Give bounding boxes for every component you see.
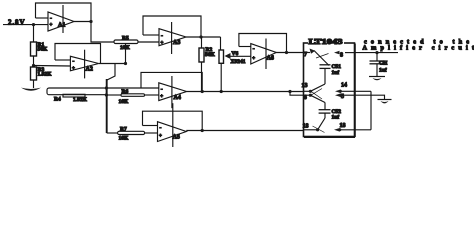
svg-text:1uf: 1uf xyxy=(332,115,340,121)
wire A5 output to pin 18 xyxy=(186,130,303,132)
op-amp A2 xyxy=(70,50,98,79)
svg-text:A3: A3 xyxy=(173,40,180,46)
node bus split pin13/6 xyxy=(288,90,291,93)
wire V6 to A6 + input xyxy=(231,55,251,57)
svg-text:56K: 56K xyxy=(38,47,49,53)
diode V6 X9241 xyxy=(219,50,246,65)
wire A3 feedback loop xyxy=(143,16,201,37)
node A3 output xyxy=(199,35,202,38)
pin 8 xyxy=(334,51,355,59)
node CH tap xyxy=(375,51,378,54)
node 2.8V input xyxy=(3,19,48,43)
wire R2 bottom to A4 output bus xyxy=(201,62,203,92)
wire R3 to ground xyxy=(33,80,35,88)
wire A2 output down to bus xyxy=(107,64,115,81)
wire A3 output xyxy=(186,36,221,38)
wire A4 output bus to pin 13 xyxy=(187,91,304,93)
ground under pin 5 wire xyxy=(378,100,392,104)
svg-text:+: + xyxy=(50,23,53,28)
wire A6 output to pin 7 xyxy=(276,52,303,54)
wire A1 output xyxy=(74,21,91,23)
wire A2 output up to R5 input line xyxy=(125,44,127,64)
node bus/R4 bottom xyxy=(105,93,108,96)
svg-text:CH: CH xyxy=(379,61,388,67)
node junction 2.8V/R1 xyxy=(32,23,35,26)
switch S6 xyxy=(310,91,325,102)
capacitor C52 xyxy=(319,109,342,121)
pin 6 xyxy=(304,94,313,101)
node A6 output xyxy=(285,51,288,54)
wire A3 output to V6 xyxy=(220,37,222,50)
svg-text:-: - xyxy=(50,16,52,22)
resistor R3 xyxy=(31,67,53,80)
svg-text:1uf: 1uf xyxy=(332,70,340,76)
pin 18 right xyxy=(334,123,371,132)
wire A2 minus input xyxy=(55,59,70,61)
svg-text:-: - xyxy=(161,33,163,39)
svg-text:14: 14 xyxy=(341,83,347,89)
resistor R2 xyxy=(199,47,216,62)
op-amp A3 xyxy=(159,22,186,54)
wire switch to C52 xyxy=(324,103,326,110)
wire C51 to switch xyxy=(324,68,326,84)
node A4/R2 xyxy=(201,90,204,93)
svg-text:A1: A1 xyxy=(58,23,65,29)
wire A4 feedback loop xyxy=(141,72,202,91)
svg-text:10K: 10K xyxy=(120,45,131,51)
pin 5 xyxy=(335,93,355,100)
svg-text:+: + xyxy=(252,56,255,61)
wire A2 output xyxy=(99,63,126,65)
ground under R3 xyxy=(21,88,41,91)
svg-text:6: 6 xyxy=(304,95,307,101)
wire C52 to switch S18 xyxy=(324,113,326,118)
pin 7 xyxy=(304,49,330,66)
wire A2 feedback loop xyxy=(55,44,101,64)
switch S18 xyxy=(318,118,325,130)
svg-text:10K: 10K xyxy=(119,136,130,142)
svg-text:LT1043: LT1043 xyxy=(309,38,344,46)
wire R1 to R3 xyxy=(33,56,35,67)
node bus/R4 top xyxy=(105,86,108,89)
op-amp A1 xyxy=(48,5,74,33)
wire A6 feedback loop xyxy=(239,34,287,53)
svg-text:+: + xyxy=(159,134,162,139)
wire R7 to A5 + input xyxy=(145,132,158,134)
svg-text:A4: A4 xyxy=(174,95,181,101)
svg-text:-: - xyxy=(160,125,162,131)
resistor R1 xyxy=(31,42,49,56)
capacitor C51 xyxy=(320,64,342,76)
wire R5 to A3 + input xyxy=(138,41,159,43)
op-amp A6 xyxy=(251,39,276,70)
pin 14 xyxy=(335,83,355,94)
wire V6 bottom to bus xyxy=(220,63,222,91)
svg-text:-: - xyxy=(161,87,163,93)
IC U1 LT1043 box xyxy=(304,38,356,137)
resistor R6 xyxy=(119,89,145,105)
svg-text:+: + xyxy=(161,41,164,46)
wire R6 to A4 + input xyxy=(145,94,159,96)
svg-text:1uf: 1uf xyxy=(379,68,387,74)
wire A1 output down to R5 xyxy=(91,22,114,43)
svg-text:1.92K: 1.92K xyxy=(73,97,88,103)
svg-text:R7: R7 xyxy=(120,127,127,133)
svg-text:8: 8 xyxy=(340,53,343,59)
svg-text:A2: A2 xyxy=(86,67,93,73)
wire A1 feedback loop xyxy=(36,3,92,22)
svg-text:56K: 56K xyxy=(205,52,216,58)
wire A5 feedback loop xyxy=(143,111,203,130)
wire bus to A4 minus input xyxy=(106,87,158,89)
op-amp A5 xyxy=(158,103,187,147)
wire bus to R6 xyxy=(106,94,121,96)
node divider tap xyxy=(32,64,35,67)
switch S13 xyxy=(310,84,325,95)
wire A1 minus input xyxy=(36,17,49,19)
resistor R5 xyxy=(114,36,138,52)
wire A6 minus input xyxy=(239,46,251,48)
svg-text:-: - xyxy=(73,59,75,65)
wire A5 minus input xyxy=(143,125,158,127)
svg-text:R6: R6 xyxy=(122,89,129,95)
svg-text:X9241: X9241 xyxy=(231,59,246,65)
pin 13 xyxy=(302,83,313,93)
wire divider tap to A2 + input xyxy=(34,65,71,68)
wire pin 8 to right xyxy=(355,52,399,54)
resistor R4 flat loop xyxy=(47,88,106,103)
capacitor CH xyxy=(370,53,388,77)
wire pin 14 loop to pin 18 right xyxy=(370,91,372,130)
svg-text:R5: R5 xyxy=(122,36,129,42)
wire A3 minus input xyxy=(143,34,159,36)
svg-text:13: 13 xyxy=(302,83,308,89)
ground under CH xyxy=(369,77,385,81)
resistor R7 xyxy=(118,127,145,142)
wire junction down to R1 xyxy=(33,25,35,42)
wire 2.8V to A1 + input xyxy=(3,24,48,26)
svg-text:2.8V: 2.8V xyxy=(8,19,25,27)
node V6 bus xyxy=(220,90,223,93)
note connected to the Amplifier circuit xyxy=(363,39,474,52)
svg-text:10K: 10K xyxy=(119,99,130,105)
wire jog to pin 6 xyxy=(290,92,304,96)
svg-text:A6: A6 xyxy=(267,56,274,62)
op-amp A4 xyxy=(159,76,187,108)
node A5 output xyxy=(201,129,204,132)
node A1 output xyxy=(89,20,92,23)
svg-text:+: + xyxy=(160,94,163,99)
svg-text:18: 18 xyxy=(340,123,346,129)
svg-text:R4: R4 xyxy=(54,97,61,103)
wire A3 output down through R2 xyxy=(201,37,203,48)
node A2 output to R5 line xyxy=(124,62,127,65)
pin 18 left xyxy=(303,124,320,132)
svg-text:1.92K: 1.92K xyxy=(38,72,53,78)
svg-text:-: - xyxy=(253,46,255,52)
svg-text:18: 18 xyxy=(303,124,309,130)
wire pin 5 to ground xyxy=(355,95,385,99)
svg-text:+: + xyxy=(72,66,75,71)
svg-text:A5: A5 xyxy=(173,135,180,141)
